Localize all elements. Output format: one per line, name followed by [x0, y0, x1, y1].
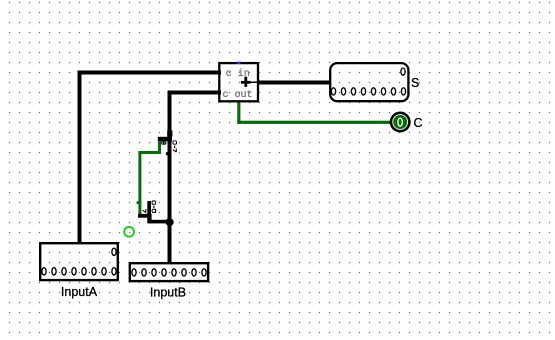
input pin InputA (9-bit, value 0)	[40, 243, 118, 299]
adder carry-in stub (floating, blue)	[237, 62, 241, 64]
input pin InputB (8-bit, value 0)	[130, 263, 208, 299]
svg-text:c out: c out	[223, 90, 253, 101]
wire adder carry-out to pin C (green, value 0)	[237, 100, 392, 124]
label 0-6 on unconnected leg (rotated)	[152, 201, 156, 213]
wire upper splitter to adder input B	[168, 91, 222, 137]
svg-text:C: C	[414, 116, 423, 130]
svg-text:InputB: InputB	[150, 286, 186, 300]
wire lower splitter combined end to junction	[147, 218, 171, 224]
wire InputB to junction	[168, 221, 172, 264]
adder (9-bit wide)	[219, 63, 259, 101]
label 7 on bit-7 leg (rotated)	[143, 209, 146, 213]
output pin S (9-bit, value 0)	[330, 63, 419, 101]
green indicator ring	[124, 227, 134, 237]
splitter SP2 (lower, splits bit 7 from bits 0-6)	[137, 201, 157, 218]
output pin C (1-bit, value 0)	[391, 113, 423, 131]
svg-text:InputA: InputA	[61, 285, 98, 299]
wire adder sum output to pin S	[259, 81, 331, 85]
wire InputA to adder input A	[78, 71, 222, 244]
splitter SP1 (upper, combines bit 8 + bits 0-7 into 9-bit bus)	[158, 130, 177, 155]
label 0-7 on bus leg (rotated)	[173, 141, 177, 152]
wire junction to upper splitter (bits 0-7)	[168, 136, 172, 222]
wire upper splitter bit8 leg to lower splitter bit7 (green, value 0)	[138, 141, 161, 214]
svg-text:S: S	[411, 76, 419, 90]
junction node	[166, 218, 174, 226]
label 8 on bit-8 leg (rotated)	[162, 142, 166, 145]
